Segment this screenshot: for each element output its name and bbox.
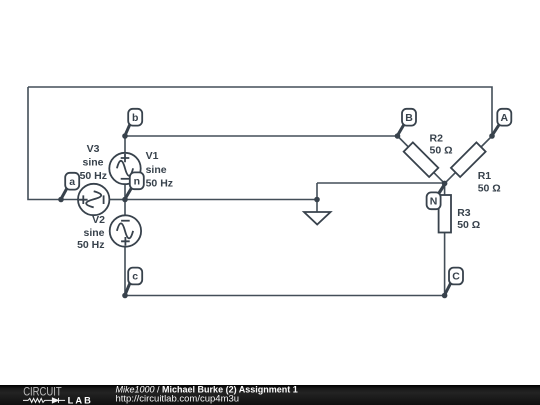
svg-text:c: c bbox=[132, 271, 138, 283]
label R1 value bbox=[478, 170, 501, 195]
wire: bottom c to C bbox=[125, 295, 445, 297]
label R3 value bbox=[457, 207, 480, 231]
svg-text:a: a bbox=[69, 176, 75, 188]
svg-text:n: n bbox=[134, 176, 140, 188]
svg-text:N: N bbox=[430, 196, 438, 208]
svg-text:50 Ω: 50 Ω bbox=[430, 144, 453, 156]
wire: V2 bottom lead down to node c bbox=[124, 247, 126, 296]
svg-text:B: B bbox=[405, 112, 413, 124]
node C flag bbox=[442, 268, 463, 299]
node b flag bbox=[122, 109, 142, 139]
svg-text:http://circuitlab.com/cup4m3u: http://circuitlab.com/cup4m3u bbox=[116, 394, 240, 405]
label R2 value bbox=[430, 133, 453, 157]
label V3 value bbox=[80, 143, 107, 182]
node B flag bbox=[395, 109, 416, 139]
svg-text:b: b bbox=[132, 112, 138, 124]
wire: R3 lead N down to bottom wire bbox=[444, 183, 446, 295]
svg-text:V2: V2 bbox=[92, 214, 105, 226]
wire: top outer loop a-A (top and right segments) bbox=[28, 87, 492, 136]
node N flag bbox=[427, 181, 448, 210]
voltage source V3 bbox=[78, 184, 109, 215]
svg-text:50 Hz: 50 Hz bbox=[80, 170, 107, 182]
svg-text:R2: R2 bbox=[430, 133, 444, 145]
svg-text:R3: R3 bbox=[457, 207, 471, 219]
resistor R1 body bbox=[451, 142, 486, 177]
svg-text:sine: sine bbox=[82, 157, 103, 169]
svg-text:A: A bbox=[501, 112, 509, 124]
voltage source V2 bbox=[110, 215, 141, 246]
label V2 value bbox=[77, 214, 105, 251]
svg-text:50 Hz: 50 Hz bbox=[77, 239, 104, 251]
ground bbox=[304, 212, 331, 225]
svg-text:V1: V1 bbox=[146, 150, 159, 162]
resistor R3 body bbox=[439, 195, 451, 233]
voltage source V1 bbox=[109, 153, 140, 184]
wire: neutral across to N bbox=[317, 182, 445, 184]
svg-text:V3: V3 bbox=[87, 143, 100, 155]
svg-text:R1: R1 bbox=[478, 170, 492, 182]
wire: ground junction up bbox=[316, 183, 318, 212]
svg-text:50 Ω: 50 Ω bbox=[457, 219, 480, 231]
node c flag bbox=[122, 268, 142, 299]
svg-text:sine: sine bbox=[146, 164, 167, 176]
node n flag bbox=[122, 172, 144, 202]
logo resistor zigzag bbox=[23, 398, 52, 402]
svg-text:C: C bbox=[452, 271, 460, 283]
node A flag bbox=[489, 109, 511, 139]
wire: neutral n to ground junction bbox=[125, 199, 317, 201]
junction: ground tap on neutral wire bbox=[314, 197, 320, 203]
svg-text:sine: sine bbox=[83, 227, 104, 239]
svg-text:50 Hz: 50 Hz bbox=[146, 177, 173, 189]
wire: V1 top lead bbox=[124, 136, 126, 153]
wire: V1 bottom lead to node n bbox=[124, 184, 126, 200]
wire: V2 top lead from node n bbox=[124, 200, 126, 216]
label V1 value bbox=[146, 150, 173, 189]
wire: left outer segment from top corner down to phase-a wire bbox=[28, 87, 78, 200]
wire: R1 lead A to N bbox=[445, 136, 492, 183]
node a flag bbox=[58, 173, 79, 203]
wire: V3 right lead to node n bbox=[110, 199, 126, 201]
svg-text:50 Ω: 50 Ω bbox=[478, 183, 501, 195]
resistor R2 body bbox=[404, 142, 439, 177]
footer bar bbox=[0, 385, 540, 405]
svg-text:CIRCUIT: CIRCUIT bbox=[23, 386, 62, 398]
wire: R2 lead B to N bbox=[398, 136, 445, 183]
svg-text:LAB: LAB bbox=[68, 396, 92, 405]
logo diode bbox=[52, 398, 65, 403]
wire: b to B bbox=[125, 135, 398, 137]
